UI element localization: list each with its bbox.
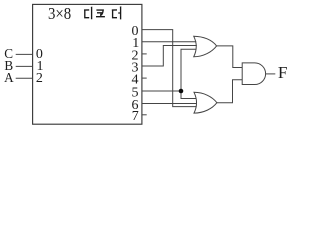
svg-text:7: 7 — [132, 109, 139, 124]
decoder box U1 — [33, 4, 142, 124]
label hangul di-ko-deo (decoder) drawn as strokes — [84, 7, 121, 19]
wire riser node D5 up to top OR — [181, 49, 196, 91]
hangul di: vowel i — [90, 7, 93, 19]
svg-text:A: A — [4, 70, 14, 85]
wire riser node D5 down to bottom OR — [181, 91, 197, 99]
hangul deo: consonant d — [112, 10, 117, 18]
svg-text:2: 2 — [36, 71, 43, 86]
svg-text:F: F — [278, 63, 288, 82]
wire output 2 stub — [142, 53, 147, 55]
wire input C — [16, 53, 33, 55]
wire F output — [266, 73, 276, 75]
wire output 5 — [142, 90, 181, 92]
hangul ko: vowel o — [96, 14, 105, 17]
hangul ko: consonant k — [96, 10, 103, 15]
wire output 1 — [142, 41, 196, 43]
wire output 0 — [142, 30, 197, 107]
and-gate G3 — [242, 63, 265, 85]
wire output 7 stub — [142, 114, 147, 116]
wire input B — [16, 65, 33, 67]
junction dot node D5 — [179, 89, 184, 94]
wire output 6 — [142, 103, 197, 105]
hangul di: consonant d — [84, 10, 89, 18]
wire G2 output to AND — [217, 80, 242, 103]
wire G1 output to AND — [217, 46, 243, 68]
wire output 4 stub — [142, 77, 147, 79]
hangul deo: vowel eo — [118, 7, 120, 19]
svg-text:3×8: 3×8 — [48, 4, 71, 23]
or-gate G2 — [194, 92, 217, 113]
wire output 3 — [142, 46, 197, 67]
or-gate G1 — [194, 36, 217, 57]
wire input A — [16, 77, 33, 79]
